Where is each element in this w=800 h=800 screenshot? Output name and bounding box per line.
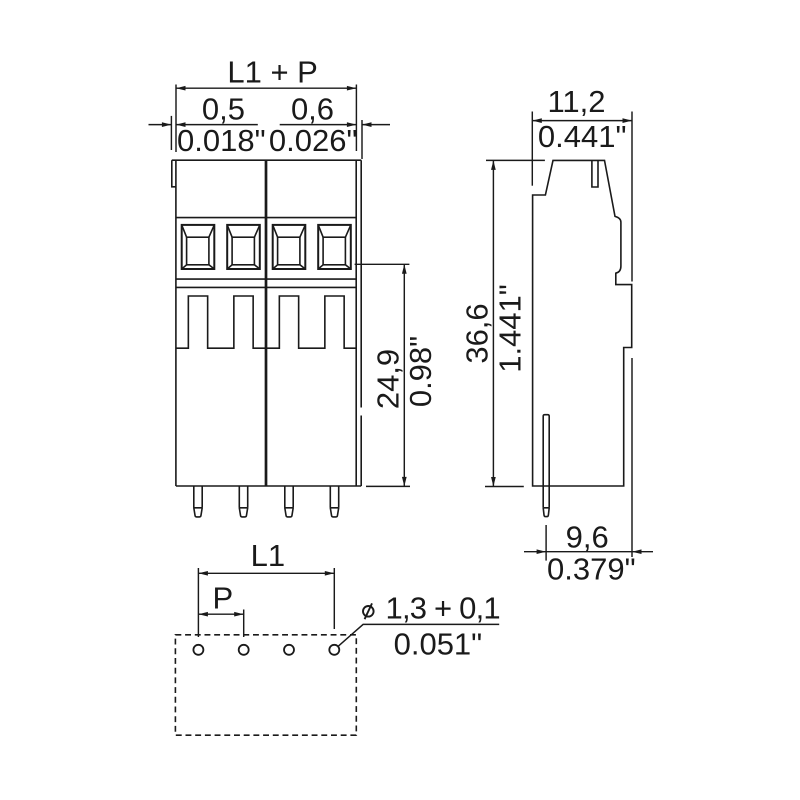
dimension L1: extension lines (198, 568, 334, 637)
dimension 9,6: arrowheads (537, 549, 642, 554)
front view: screw opening pole 2 (227, 225, 260, 269)
svg-text:P: P (212, 581, 233, 616)
dimension 11,2: extension lines (532, 112, 632, 558)
dimension 24,9: reference lines (355, 264, 410, 486)
dimension 36,6: reference lines (485, 160, 545, 486)
svg-text:24,9: 24,9 (371, 349, 406, 409)
side view: solder pin (543, 415, 549, 517)
svg-text:0.98": 0.98" (403, 336, 438, 407)
front view: right outer edge with gap (360, 160, 362, 486)
bottom view: drill hole 1 (193, 645, 203, 655)
dimension 9,6: pin center tick (545, 525, 547, 561)
dimension P: arrowheads (198, 612, 243, 617)
svg-text:L1: L1 (251, 538, 285, 573)
front view: solder pin 3 (285, 486, 293, 517)
front view: top-left lip (172, 160, 176, 187)
front view: screw opening pole 1 (182, 225, 215, 269)
side view: housing outline (533, 160, 632, 486)
dimension L1+P: dimension line (176, 87, 356, 89)
bottom view: dashed footprint outline (175, 635, 356, 735)
dimension 0,5 / 0,6: dimension lines (149, 124, 391, 126)
svg-text:9,6: 9,6 (566, 520, 609, 555)
bottom view: drill hole 4 (329, 645, 339, 655)
front view: left edge (175, 160, 177, 486)
svg-text:1,3 + 0,1: 1,3 + 0,1 (386, 591, 500, 626)
front view: housing top edge (172, 159, 361, 161)
svg-text:0.018": 0.018" (177, 123, 266, 158)
svg-text:0.441": 0.441" (538, 119, 627, 154)
diameter symbol (363, 603, 374, 619)
svg-text:0,6: 0,6 (291, 92, 334, 127)
dimension L1: arrowheads (198, 571, 334, 576)
front view: solder pin 4 (330, 486, 338, 517)
front view: horizontal seam line 3 (176, 286, 356, 288)
dimension 24,9: arrowheads (402, 264, 407, 486)
dimension 11,2: dimension line (532, 120, 632, 122)
svg-text:11,2: 11,2 (547, 84, 605, 119)
svg-text:1.441": 1.441" (493, 284, 528, 373)
svg-text:0.379": 0.379" (547, 552, 636, 587)
front view: center divider (265, 160, 268, 486)
side view: screw slot (592, 160, 598, 187)
svg-text:0.026": 0.026" (269, 123, 358, 158)
bottom view: drill hole 3 (284, 645, 294, 655)
svg-text:36,6: 36,6 (460, 303, 495, 363)
dimension 0,5 / 0,6: arrowheads (162, 122, 372, 127)
front view: right inner edge (355, 160, 357, 486)
dimension L1: dimension line (198, 572, 334, 574)
front view: solder pin 2 (239, 486, 247, 517)
bottom view: drill hole 2 (239, 645, 249, 655)
svg-text:L1 + P: L1 + P (227, 55, 318, 90)
front view: horizontal seam line 2 (176, 278, 356, 280)
dimension L1+P: extension lines (171, 85, 362, 160)
front view: comb profile (176, 296, 356, 348)
dimension L1+P: arrowheads (176, 86, 356, 91)
leader line for hole diameter (338, 624, 499, 646)
front view: horizontal seam line 1 (176, 217, 356, 219)
front view: bottom edge (176, 485, 361, 487)
svg-text:0,5: 0,5 (202, 92, 245, 127)
dimension 9,6: dimension line (524, 551, 653, 553)
dimension 36,6: arrowheads (491, 160, 496, 486)
front view: solder pin 1 (194, 486, 202, 517)
dimension P: dimension line (198, 613, 243, 615)
dimension 11,2: arrowheads (532, 118, 632, 123)
dimension P: extension line (243, 610, 245, 638)
front view: screw opening pole 4 (318, 225, 351, 269)
svg-text:0.051": 0.051" (394, 627, 483, 662)
front view: screw opening pole 3 (273, 225, 306, 269)
